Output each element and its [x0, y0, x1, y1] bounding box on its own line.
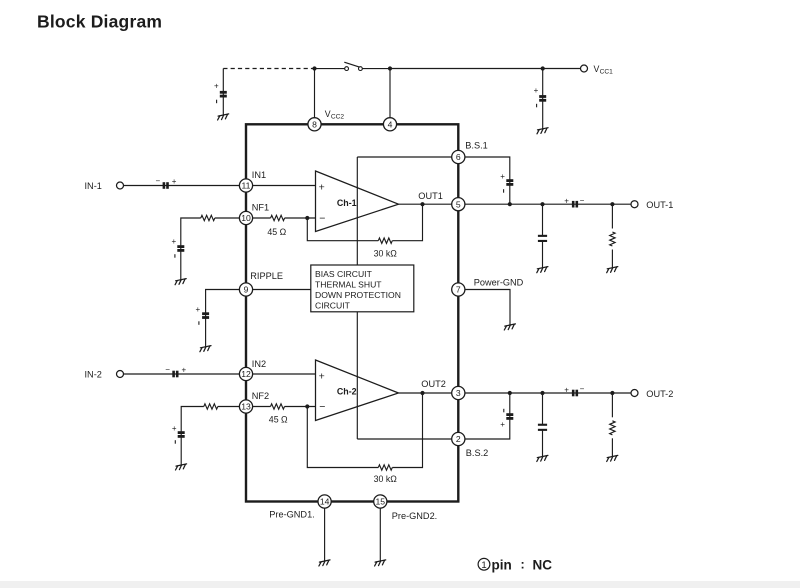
resistor NF1 series — [201, 215, 215, 220]
svg-text:RIPPLE: RIPPLE — [250, 271, 283, 281]
svg-text:Ch-2: Ch-2 — [337, 387, 357, 397]
svg-text:OUT-2: OUT-2 — [646, 389, 673, 399]
node Ch-1 minus input junction — [305, 216, 309, 220]
svg-text:+: + — [172, 237, 177, 246]
svg-text:NF1: NF1 — [252, 203, 269, 213]
pin 15 Pre-GND2 — [374, 495, 387, 508]
wire dashed VCC2 rail to top-left capacitor — [223, 68, 314, 70]
svg-text:NC: NC — [533, 557, 553, 572]
svg-text:Pre-GND2.: Pre-GND2. — [392, 511, 437, 521]
capacitor C-top-left polarized — [220, 91, 227, 98]
capacitor input coupling C-IN2 — [172, 371, 178, 378]
op-amp Ch-2 — [316, 360, 399, 421]
svg-text:12: 12 — [241, 369, 251, 379]
pin 11 IN1 — [239, 179, 252, 192]
svg-text:4: 4 — [388, 119, 393, 129]
node bootstrap to OUT1 line — [508, 202, 512, 206]
pin 6 B.S.1 — [452, 150, 465, 163]
wire pin 11 to Ch-1 plus input — [252, 185, 315, 187]
pin 4 — [383, 118, 396, 131]
svg-text:IN-1: IN-1 — [85, 181, 102, 191]
svg-text:Ch-1: Ch-1 — [337, 198, 357, 208]
BIAS circuit vertical line bias box to B.S.2 wire — [356, 312, 358, 439]
pin 14 Pre-GND1 — [318, 495, 331, 508]
IC box U1 — [246, 124, 458, 501]
svg-text:+: + — [172, 424, 177, 433]
svg-text:−: − — [319, 401, 325, 413]
wire node above pin 4 down to pin 4 — [389, 69, 391, 122]
svg-text:BIAS CIRCUIT: BIAS CIRCUIT — [315, 269, 373, 279]
svg-text:−: − — [156, 176, 161, 185]
svg-text:45 Ω: 45 Ω — [269, 414, 288, 424]
svg-text:−: − — [580, 385, 585, 394]
svg-text:+: + — [172, 177, 177, 186]
wire top-left capacitor drop — [222, 69, 224, 115]
capacitor bootstrap C-BS1 polarized — [506, 179, 513, 186]
resistor load Ch-1 vertical — [610, 232, 615, 246]
terminal IN-2 — [117, 371, 124, 378]
pin 3 OUT2 — [452, 386, 465, 399]
svg-text:IN2: IN2 — [252, 359, 266, 369]
wire zobel capacitor drop Ch-1 upper — [542, 204, 544, 235]
svg-text:+: + — [182, 366, 187, 375]
svg-text:OUT-1: OUT-1 — [646, 200, 673, 210]
wire pin 6 to bootstrap capacitor C-BS1 — [465, 157, 510, 204]
wire IN-1 terminal to pin 11 — [123, 185, 240, 187]
capacitor NF2 polarized — [178, 431, 185, 438]
svg-text:45 Ω: 45 Ω — [267, 227, 286, 237]
capacitor zobel Ch-1 — [538, 235, 547, 242]
wire pin 5 to OUT-1 terminal — [465, 203, 631, 205]
ground below ripple capacitor — [200, 346, 211, 352]
node OUT2 junction — [420, 391, 424, 395]
pin 12 IN2 — [239, 367, 252, 380]
wire rail from node above pin 8 to switch — [315, 68, 345, 70]
svg-text:30 kΩ: 30 kΩ — [374, 248, 398, 258]
wire pin 9 ripple capacitor to ground — [206, 290, 240, 347]
capacitor NF1 polarized — [177, 245, 184, 252]
node bootstrap to OUT2 line — [508, 391, 512, 395]
svg-text:−: − — [580, 196, 585, 205]
BIAS circuit vertical line B.S.1 wire to bias box — [356, 157, 358, 265]
svg-text:+: + — [319, 370, 325, 382]
ground below NF2 capacitor — [176, 464, 187, 470]
svg-text:1: 1 — [481, 560, 486, 571]
node above pin 4 — [388, 66, 392, 70]
wire node above pin 8 down to pin 8 — [314, 69, 316, 122]
svg-text:+: + — [534, 86, 539, 95]
svg-text:15: 15 — [376, 497, 386, 507]
node Ch-2 minus input junction — [305, 404, 309, 408]
capacitor C-VCC1 polarized — [539, 95, 546, 102]
pin 8 VCC2 — [308, 118, 321, 131]
svg-text:Power-GND: Power-GND — [474, 278, 524, 288]
bottom gray band — [0, 581, 800, 588]
svg-text:−: − — [319, 213, 325, 225]
svg-text:30 kΩ: 30 kΩ — [374, 474, 398, 484]
footnote pin1 NC — [478, 557, 552, 572]
wire NF2 resistor left segment — [218, 406, 240, 408]
pin 9 RIPPLE — [239, 283, 252, 296]
node VCC1 capacitor tap — [541, 66, 545, 70]
svg-text:V: V — [325, 109, 331, 119]
switch S1 right contact — [359, 67, 363, 71]
wire pin 13 to 45ohm resistor Ch-2 — [252, 406, 270, 408]
svg-text:B.S.1: B.S.1 — [465, 141, 487, 151]
ground below VCC1 capacitor — [537, 128, 548, 134]
svg-text:+: + — [500, 172, 505, 181]
svg-text:+: + — [564, 197, 569, 206]
svg-text:OUT2: OUT2 — [421, 379, 446, 389]
pin 2 B.S.2 — [452, 432, 465, 445]
svg-text:2: 2 — [456, 434, 461, 444]
wire NF1 corner to capacitor and ground — [181, 218, 201, 280]
svg-text:+: + — [196, 305, 201, 314]
wire Ch-1 output apex to pin 5 — [399, 203, 453, 205]
capacitor bootstrap C-BS2 polarized — [506, 413, 513, 420]
wire load resistor drop Ch-1 lower — [611, 250, 613, 268]
svg-text:V: V — [594, 64, 600, 74]
pin 7 Power-GND — [452, 283, 465, 296]
wire Ch-1 feedback down-left — [307, 218, 378, 241]
node load tap Ch-2 — [610, 391, 614, 395]
resistor NF2 series — [204, 404, 218, 409]
svg-text:7: 7 — [456, 285, 461, 295]
wire IN-2 terminal to pin 12 — [123, 373, 240, 375]
resistor load Ch-2 vertical — [610, 421, 615, 435]
svg-text:11: 11 — [242, 181, 251, 191]
wire 45ohm resistor to minus input node — [285, 217, 316, 219]
wire NF1 resistor left segment — [215, 217, 240, 219]
resistor 30k Ch-1 — [378, 238, 392, 243]
wire pin 9 to bias box — [252, 289, 310, 291]
ground below zobel Ch-2 — [537, 455, 548, 461]
node zobel tap Ch-1 — [540, 202, 544, 206]
resistor 30k Ch-2 — [378, 465, 392, 470]
wire pin 15 to ground — [379, 508, 381, 561]
wire Ch-2 feedback right segment up to OUT2 node — [392, 393, 422, 468]
terminal OUT-2 — [631, 390, 638, 397]
svg-text:DOWN PROTECTION: DOWN PROTECTION — [315, 290, 401, 300]
wire pin 2 internal to bias line — [357, 438, 452, 440]
svg-text:Block Diagram: Block Diagram — [37, 12, 162, 32]
pin 10 NF1 — [239, 211, 252, 224]
ground below load resistor Ch-2 — [607, 455, 618, 461]
svg-text:8: 8 — [312, 119, 317, 129]
svg-text:OUT1: OUT1 — [418, 191, 443, 201]
svg-text:pin: pin — [492, 557, 512, 572]
ground below pin 14 — [319, 560, 330, 566]
switch S1 left contact — [345, 67, 349, 71]
capacitor input coupling C-IN1 — [163, 182, 169, 189]
wire Ch-1 feedback right segment up to OUT1 node — [392, 204, 422, 241]
wire NF2 corner to capacitor and ground — [181, 407, 204, 465]
wire pin 3 to OUT-2 terminal — [465, 392, 631, 394]
wire zobel capacitor drop Ch-1 lower — [542, 242, 544, 268]
wire pin 2 to bootstrap capacitor C-BS2 — [465, 393, 510, 439]
svg-text:IN-2: IN-2 — [85, 369, 102, 379]
svg-text:+: + — [564, 385, 569, 394]
wire pin 14 to ground — [324, 508, 326, 561]
svg-text:5: 5 — [456, 199, 461, 209]
ground below pin 15 — [375, 560, 386, 566]
wire rail from switch to node above pin 4 — [362, 68, 390, 70]
node zobel tap Ch-2 — [540, 391, 544, 395]
svg-text:THERMAL SHUT: THERMAL SHUT — [315, 280, 382, 290]
wire Ch-2 output apex to pin 3 — [399, 392, 453, 394]
ground below top-left capacitor — [218, 114, 229, 120]
wire rail from node above pin 4 to VCC1 terminal — [390, 68, 581, 70]
svg-text:CC2: CC2 — [331, 114, 345, 121]
svg-text:9: 9 — [244, 285, 249, 295]
capacitor output coupling C-OUT2 — [572, 390, 578, 397]
svg-text:CIRCUIT: CIRCUIT — [315, 301, 351, 311]
capacitor output coupling C-OUT1 — [572, 201, 578, 208]
svg-text:10: 10 — [241, 213, 251, 223]
svg-text:3: 3 — [456, 388, 461, 398]
svg-text:+: + — [319, 182, 325, 194]
wire pin 10 to 45ohm resistor — [252, 217, 270, 219]
wire zobel capacitor drop Ch-2 upper — [542, 393, 544, 424]
svg-text:IN1: IN1 — [252, 170, 266, 180]
svg-text:6: 6 — [456, 152, 461, 162]
terminal VCC1 — [581, 65, 588, 72]
svg-text:14: 14 — [320, 497, 330, 507]
svg-text:+: + — [500, 420, 505, 429]
node load tap Ch-1 — [610, 202, 614, 206]
wire Ch-2 feedback down-left — [307, 407, 378, 468]
wire load resistor drop Ch-2 lower — [611, 438, 613, 456]
wire load resistor drop Ch-1 upper — [611, 204, 613, 228]
resistor 45 ohm Ch-2 — [271, 404, 285, 409]
switch S1 lever — [344, 62, 360, 67]
wire pin 12 to Ch-2 plus input — [252, 373, 315, 375]
svg-text:B.S.2: B.S.2 — [466, 448, 488, 458]
ground below load resistor Ch-1 — [607, 267, 618, 273]
svg-text:NF2: NF2 — [252, 391, 269, 401]
node above pin 8 — [312, 66, 316, 70]
wire zobel capacitor drop Ch-2 lower — [542, 430, 544, 456]
ground below pin 7 — [504, 324, 515, 330]
terminal IN-1 — [117, 182, 124, 189]
svg-text:Pre-GND1.: Pre-GND1. — [269, 510, 314, 520]
svg-text::: : — [521, 558, 525, 572]
ground below zobel Ch-1 — [537, 267, 548, 273]
terminal OUT-1 — [631, 201, 638, 208]
wire VCC1 decoupling capacitor drop — [542, 69, 544, 129]
resistor 45 ohm Ch-1 — [271, 215, 285, 220]
wire 45ohm resistor to minus input node Ch-2 — [285, 406, 316, 408]
node OUT1 junction — [420, 202, 424, 206]
wire pin 7 to ground — [465, 290, 510, 325]
op-amp Ch-1 — [316, 171, 399, 232]
svg-text:+: + — [214, 82, 219, 91]
ground below NF1 capacitor — [175, 279, 186, 285]
wire pin 6 internal to bias line — [357, 156, 452, 158]
svg-text:−: − — [165, 365, 170, 374]
svg-text:CC1: CC1 — [600, 68, 614, 75]
capacitor zobel Ch-2 — [538, 424, 547, 431]
pin 13 NF2 — [239, 400, 252, 413]
capacitor RIPPLE polarized — [202, 312, 209, 319]
wire load resistor drop Ch-2 upper — [611, 393, 613, 417]
bias box — [311, 265, 414, 312]
pin 5 OUT1 — [452, 198, 465, 211]
svg-text:13: 13 — [241, 402, 251, 412]
